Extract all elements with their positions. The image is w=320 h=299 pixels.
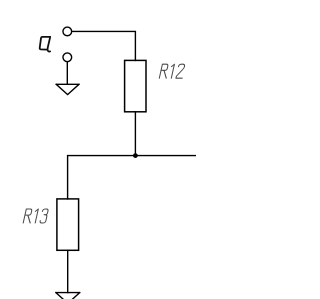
node a label <box>40 37 51 52</box>
wire horizontal bus <box>68 156 196 199</box>
ground bottom <box>56 293 80 299</box>
ground top <box>56 84 79 94</box>
resistor R13 <box>57 199 79 250</box>
wire a pin2 to ground <box>66 62 68 85</box>
terminal circle a pin 2 <box>63 53 72 62</box>
label R13 <box>23 209 48 223</box>
junction dot <box>133 153 138 158</box>
wire a pin1 to R12 top <box>72 31 136 60</box>
terminal circle a pin 1 <box>63 27 72 36</box>
resistor R12 <box>125 60 146 111</box>
label R12 <box>159 64 185 78</box>
wire R13 bottom to ground <box>67 250 69 292</box>
wire R12 bottom to junction <box>134 112 136 156</box>
